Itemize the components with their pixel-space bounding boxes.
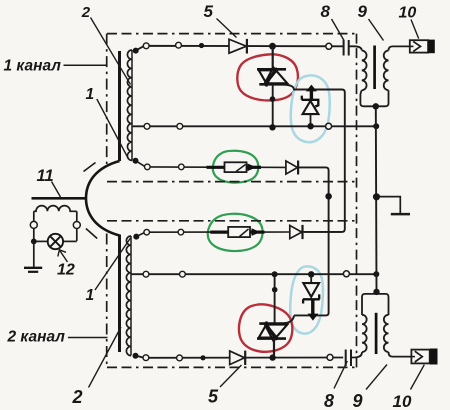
- dashed enclosure box channel 1 left edge: [106, 34, 108, 164]
- diode row C' channel 2: [290, 225, 302, 238]
- wire row C' to diode channel 2: [265, 231, 291, 233]
- zener triangle channel 2: [303, 283, 319, 297]
- bidirectional zener top bar channel 1: [257, 68, 286, 71]
- winding L1/L2 channel 2 spine: [130, 236, 132, 356]
- node row B' to rail x376: [373, 271, 379, 277]
- node transformer 9 bottom secondary junction: [373, 289, 379, 295]
- connector 10 top chevron pin: [413, 41, 420, 51]
- bidirectional zener stem lower channel 1: [272, 85, 274, 126]
- transformer 9 top left winding: [362, 51, 367, 91]
- transformer 9 top left winding bottom lead: [360, 90, 388, 106]
- node zener to row B channel 1: [307, 123, 313, 129]
- pointer line label 10 top: [411, 20, 419, 39]
- node on zener stem channel 1: [270, 96, 276, 102]
- transformer 9 top right winding top lead to connector: [389, 46, 414, 50]
- bidirectional zener tail to zener bottom net channel 2: [284, 316, 294, 324]
- wire coil top jog row C' channel 2: [137, 233, 145, 237]
- transformer 9 bottom secondary top lead: [362, 294, 389, 315]
- resistor inner scribble channel 1: [236, 165, 246, 172]
- svg-text:12: 12: [57, 262, 75, 279]
- terminal circle row C 1: [145, 164, 151, 170]
- transformer 9 top core: [373, 46, 376, 90]
- zener cathode bar channel 1: [302, 96, 320, 107]
- terminal circle row C' 2: [178, 229, 184, 235]
- connector 10 top wire into pin: [410, 45, 414, 47]
- arc tick bottom: [86, 229, 97, 239]
- bidirectional zener triangle up channel 1: [265, 67, 288, 83]
- connector 10 bottom box: [411, 350, 429, 364]
- arc tick top: [84, 163, 96, 172]
- wire row B channel 1: [132, 125, 376, 127]
- zener upper stem channel 2: [310, 276, 312, 284]
- terminal circle antenna right: [73, 222, 80, 229]
- wire row C' channel 2: [147, 231, 211, 233]
- zener arrow blob channel 1: [306, 85, 317, 92]
- wire lamp left: [34, 240, 48, 242]
- dashed enclosure box channel 1 top edge: [107, 33, 357, 35]
- resistor lead thick right with arrow channel 1: [247, 166, 262, 169]
- highlight loop cyan around zener channel 1: [291, 75, 330, 142]
- pointer line label 10 bottom: [411, 365, 425, 390]
- antenna coil right lead: [76, 211, 78, 241]
- capacitor 8 channel 1: [344, 40, 349, 56]
- connector 10 top black block: [428, 40, 435, 54]
- winding L1/L2 channel 1 bumps: [127, 50, 132, 160]
- transformer 9 top right winding: [384, 51, 389, 91]
- pointer arrow label 12: [59, 250, 67, 262]
- wire row C' from diode to rail x344: [303, 231, 342, 233]
- terminal circle row B' 1: [143, 271, 149, 277]
- terminal circle row B right: [326, 123, 332, 129]
- bidirectional zener stem upper channel 1: [272, 47, 274, 69]
- pointer line label 1 top: [97, 99, 128, 158]
- node lamp left junction: [31, 239, 37, 245]
- wire row A to transformer after capacitor: [349, 46, 362, 50]
- pointer line label 5 bottom: [220, 365, 242, 387]
- node stem to row B channel 1: [269, 124, 275, 130]
- zener lower stem channel 1: [310, 114, 312, 124]
- bidirectional zener triangle down channel 1: [259, 70, 277, 83]
- svg-text:1 канал: 1 канал: [4, 58, 62, 75]
- antenna coil left lead: [33, 211, 35, 241]
- highlight loop red around bidirectional zener channel 1: [237, 54, 298, 100]
- connector 10 bottom wire into pin: [411, 356, 415, 358]
- ground symbol right: [391, 213, 410, 216]
- pointer line label 8 bottom: [334, 361, 347, 389]
- terminal circle row B' right: [343, 271, 349, 277]
- zener cathode bar channel 2: [303, 294, 320, 303]
- bidirectional zener center scribble channel 1: [266, 68, 277, 87]
- terminal circle row B 1: [144, 123, 150, 129]
- bidirectional zener stem upper channel 2: [274, 276, 276, 323]
- wire zener top net channel 1 with tail and rail down to row C': [284, 85, 345, 232]
- highlight loop green around resistor channel 1: [213, 151, 259, 183]
- terminal circle row B 2: [177, 123, 183, 129]
- highlight loop red around bidirectional zener channel 2: [239, 304, 292, 351]
- svg-text:5: 5: [204, 2, 214, 21]
- terminal circle antenna left: [30, 221, 37, 228]
- antenna coil 11 bumps: [34, 206, 77, 212]
- node junction row A' x203: [200, 355, 205, 360]
- wire coil bottom jog row C channel 1: [137, 161, 145, 166]
- resistor R channel 1: [225, 162, 247, 172]
- svg-text:1: 1: [86, 86, 95, 103]
- bidirectional zener bottom bar channel 1: [259, 83, 288, 86]
- node ground stub on rail x376: [373, 193, 380, 200]
- diode 5 channel 2: [230, 351, 245, 365]
- dashed enclosure box channel 2 bottom edge: [107, 366, 357, 368]
- dashed enclosure box channel 1 bottom edge: [107, 181, 357, 183]
- bidirectional zener stem lower channel 2: [273, 339, 275, 356]
- bidirectional zener center scribble channel 2: [266, 322, 277, 340]
- wire row C channel 1: [147, 166, 207, 168]
- node coil top terminal channel 2: [133, 234, 139, 240]
- diode 5 channel 1: [229, 39, 246, 53]
- node red stem to row B' channel 2: [272, 271, 278, 277]
- terminal circle row A' 2: [177, 355, 183, 361]
- lamp 12: [48, 234, 63, 249]
- bidirectional zener bottom bar channel 2: [257, 337, 286, 340]
- svg-text:11: 11: [37, 167, 54, 185]
- rail x376 from transformer top junction to transformer bottom junction: [375, 106, 378, 291]
- ground lead left: [33, 241, 35, 267]
- transformer 9 bottom left winding bottom lead: [359, 352, 363, 357]
- resistor R channel 2: [228, 227, 250, 237]
- svg-text:8: 8: [321, 2, 331, 21]
- wire row A' after capacitor to transformer: [352, 354, 362, 358]
- pointer line label 8 top: [332, 19, 345, 41]
- transformer 9 bottom core: [375, 313, 378, 354]
- svg-text:5: 5: [208, 387, 219, 407]
- svg-text:10: 10: [393, 392, 412, 410]
- node coil bottom terminal channel 1: [133, 158, 139, 164]
- wire row C to diode channel 1: [261, 166, 287, 168]
- ground stub right: [377, 197, 401, 214]
- pointer line label 5 top: [217, 19, 237, 38]
- ground symbol left: [24, 267, 42, 269]
- connector 10 bottom chevron pin: [415, 351, 423, 362]
- node transformer 9 top secondary junction: [373, 103, 379, 109]
- bidirectional zener triangle down channel 2: [265, 325, 288, 341]
- node junction row A x201: [199, 43, 204, 48]
- terminal circle row C 2: [179, 164, 185, 170]
- resistor lead thick right with arrow channel 2: [250, 231, 265, 234]
- highlight loop cyan around zener channel 2: [290, 266, 323, 333]
- transformer 9 bottom right winding: [384, 315, 389, 352]
- pointer line label 11: [52, 182, 61, 198]
- bidirectional zener triangle up channel 2: [259, 325, 277, 338]
- zener thick stem channel 2: [311, 300, 314, 316]
- resistor lead thick left channel 1: [207, 166, 226, 169]
- ferrite rod channel 1: [118, 51, 121, 161]
- node zener top to row B' channel 2: [308, 271, 314, 277]
- node junction row A above bidirectional zener: [269, 43, 276, 50]
- svg-text:9: 9: [353, 391, 363, 410]
- zener thick stem channel 1: [310, 89, 313, 100]
- highlight loop green around resistor channel 2: [208, 214, 263, 251]
- wire row C to rail and rail down to zener bottom net channel 2: [294, 167, 329, 315]
- magnetic antenna arc: [86, 161, 120, 236]
- pointer line label 2 bottom: [89, 327, 122, 388]
- svg-text:2: 2: [81, 4, 91, 21]
- node coil bottom terminal channel 2: [133, 353, 139, 359]
- wire row B' channel 2: [131, 273, 376, 275]
- pointer line label 2 top: [91, 18, 131, 85]
- svg-text:9: 9: [358, 2, 368, 21]
- ferrite rod channel 2: [118, 235, 121, 353]
- wire row A' channel 2: [136, 356, 343, 358]
- pointer line label 1 bottom: [95, 238, 131, 290]
- resistor inner scribble channel 2: [240, 229, 249, 237]
- node row B to rail x376: [373, 123, 379, 129]
- terminal circle row A 1: [143, 43, 149, 49]
- capacitor 8 channel 2: [346, 350, 351, 367]
- antenna ferrite rod horizontal 11: [32, 197, 86, 200]
- svg-text:2 канал: 2 канал: [7, 329, 66, 346]
- node on zener stem channel 2: [272, 287, 278, 293]
- pointer line 2 kanal: [68, 337, 108, 339]
- svg-text:8: 8: [324, 391, 334, 410]
- node junction row A' below bidirectional zener: [269, 354, 275, 360]
- winding L1/L2 channel 2 bumps: [126, 236, 131, 356]
- diode row C channel 1: [286, 161, 298, 174]
- terminal circle row C' 1: [144, 229, 150, 235]
- transformer 9 bottom right winding bottom lead to connector: [389, 352, 416, 357]
- dashed enclosure box channel 2 left edge: [106, 234, 108, 368]
- transformer 9 bottom left winding: [362, 315, 367, 352]
- terminal circle row A' before capacitor 8: [327, 354, 333, 360]
- svg-text:10: 10: [399, 5, 417, 22]
- wire lamp right: [63, 240, 77, 242]
- svg-text:1: 1: [86, 287, 95, 304]
- winding L1/L2 channel 1 spine: [131, 50, 133, 161]
- terminal circle row A' 1: [143, 355, 149, 361]
- dashed enclosure box right edge shared: [356, 34, 358, 368]
- zener arrow blob channel 2: [308, 314, 319, 321]
- bidirectional zener top bar channel 2: [259, 322, 288, 325]
- pointer line 1 kanal: [64, 64, 107, 66]
- svg-text:2: 2: [72, 387, 83, 407]
- terminal circle row A 2: [176, 42, 182, 48]
- connector 10 top box: [410, 40, 428, 52]
- node on rail x328: [325, 193, 332, 200]
- terminal circle row A before capacitor 8: [326, 43, 332, 49]
- terminal circle row B' 2: [180, 271, 186, 277]
- connector 10 bottom black block: [430, 349, 438, 365]
- zener triangle channel 1: [303, 101, 319, 114]
- dashed enclosure box channel 2 top edge: [107, 220, 357, 222]
- node coil top terminal channel 1: [133, 48, 139, 54]
- resistor lead thick left channel 2: [210, 231, 228, 234]
- wire row A channel 1: [136, 46, 343, 50]
- pointer line label 9 top: [369, 19, 384, 41]
- pointer line label 9 bottom: [366, 365, 387, 390]
